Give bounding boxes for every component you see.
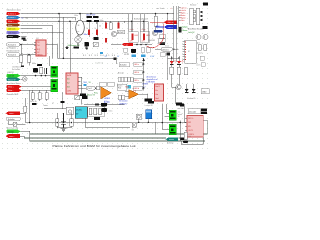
vertical left bus (29, 90, 31, 122)
transistor Q3 (196, 35, 201, 40)
svg-text:Steckdose oben: Steckdose oben (7, 8, 21, 11)
cyan pad small (83, 84, 86, 86)
capacitor C7 (93, 16, 99, 18)
resistor R7 (45, 93, 48, 100)
resistor bank R5 R6 R7 (30, 90, 47, 101)
wire op2 out (125, 91, 148, 98)
svg-text:10k Widerst.: 10k Widerst. (12, 66, 22, 69)
connector flag violet (7, 31, 21, 34)
capacitor C8 (87, 20, 92, 22)
junction circle (21, 54, 23, 56)
svg-text:LM386 N: LM386 N (119, 104, 127, 106)
svg-text:10k: 10k (188, 136, 191, 138)
connector flag green 2 (7, 130, 21, 134)
stubs to labels (179, 8, 181, 21)
relay K1 green (51, 66, 58, 77)
box small2 (201, 63, 205, 67)
blob masse (80, 93, 86, 96)
capacitor C4 (74, 46, 80, 48)
wire green2 (21, 131, 30, 141)
svg-text:Anschluss Motor: Anschluss Motor (7, 82, 21, 85)
svg-text:IN2: IN2 (188, 122, 191, 124)
navy mini flag (154, 30, 163, 33)
bus y104 (84, 104, 125, 106)
wire motor- (22, 89, 51, 91)
svg-text:Elko: Elko (84, 34, 88, 36)
svg-text:Motor +: Motor + (8, 20, 14, 23)
svg-text:Lok hi: Lok hi (196, 65, 201, 67)
svg-text:BC5: BC5 (197, 43, 200, 45)
box R bank2 (88, 107, 105, 117)
svg-text:Masse 5V: Masse 5V (8, 79, 16, 81)
resistor R12 (99, 108, 102, 114)
red pin labels (181, 6, 187, 21)
red bar col a (88, 30, 90, 36)
cyan pads row2 (131, 55, 136, 58)
bus bottom 1 (30, 120, 207, 134)
svg-text:Beleuchtung vorn: Beleuchtung vorn (134, 18, 148, 21)
node dot (58, 21, 59, 22)
diode D6 (192, 84, 196, 93)
wires right of relays (180, 104, 184, 141)
svg-text:blau: blau (156, 25, 159, 27)
node dot ov4 (95, 88, 96, 89)
capacitor C6 (87, 16, 93, 18)
vertical x59 (58, 14, 60, 59)
connector flag red 2 (7, 20, 21, 23)
meter box (66, 107, 74, 114)
svg-text:LGB MZS: LGB MZS (147, 82, 156, 84)
strip line (115, 58, 117, 64)
svg-text:Poti 1: Poti 1 (88, 87, 93, 90)
left boxes of stack (119, 63, 130, 67)
svg-text:Masse 5V: Masse 5V (87, 95, 96, 97)
lamp LP2 (75, 35, 82, 46)
connector flag red motor- (7, 89, 22, 93)
connector marks (200, 11, 202, 21)
connector flag red motor+ (7, 85, 22, 89)
wires module (139, 119, 156, 134)
svg-text:1N40: 1N40 (202, 92, 206, 94)
svg-text:1k: 1k (95, 28, 97, 30)
svg-text:Licht hinten: Licht hinten (8, 31, 17, 34)
resistor R14 (177, 67, 181, 74)
opamp U4 (101, 87, 112, 99)
capacitor C10 (32, 103, 37, 105)
capacitor C11 (61, 113, 66, 128)
component boxes top col4 (129, 32, 150, 43)
node dot (79, 13, 81, 15)
node dot (63, 58, 65, 60)
blue annotation block (147, 76, 158, 84)
connector flag blue right (164, 25, 177, 29)
svg-text:angelehnt an: angelehnt an (147, 78, 158, 81)
blob (183, 141, 188, 143)
svg-text:Lspr: Lspr (125, 43, 129, 46)
svg-text:Kontakt 1: Kontakt 1 (8, 44, 16, 47)
small boxes left of op2 (118, 95, 125, 100)
svg-text:Anschlüsse: Anschlüsse (147, 76, 157, 79)
blob under ov3 (167, 53, 171, 56)
wire to strip (58, 45, 116, 59)
vertical x70 (69, 21, 71, 73)
capacitor C9 (94, 20, 99, 22)
blob (176, 102, 182, 105)
ic U8 bottom right (185, 116, 207, 138)
svg-text:Kontakt: Kontakt (8, 130, 14, 133)
svg-text:Stufen: Stufen (117, 85, 122, 88)
resistor R9 (70, 113, 73, 128)
resistor (204, 45, 207, 51)
bus bottom 2 (24, 137, 187, 139)
svg-text:Weiche: Weiche (163, 49, 169, 51)
svg-text:Poti: Poti (94, 92, 98, 95)
ic U3 driver (66, 73, 78, 94)
resistor vert (154, 16, 157, 26)
small box under ov3 (160, 53, 165, 57)
svg-text:Gleis re: Gleis re (168, 21, 174, 24)
svg-text:Masse: Masse (8, 36, 13, 38)
wires below leds (172, 74, 179, 104)
svg-text:Decoder: Decoder (189, 110, 197, 113)
capacitor C1 (37, 64, 42, 66)
transistor box module (136, 114, 142, 119)
LED D1 arrows (174, 60, 176, 62)
svg-text:Anschl.: Anschl. (118, 72, 124, 75)
dots (136, 44, 147, 46)
cable end symbol (22, 37, 27, 41)
dot (155, 13, 157, 15)
resistor R4 (24, 98, 27, 123)
black blob right of teal (180, 137, 187, 140)
svg-text:Gnd: Gnd (155, 98, 158, 100)
wire 4 (21, 25, 53, 58)
stack of led boxes (134, 62, 143, 90)
wire top bus 1 (21, 13, 174, 15)
elko C5 (84, 42, 89, 49)
node dots module (138, 122, 149, 123)
blob under bus (102, 108, 108, 112)
bottom loop (181, 137, 203, 144)
node dot (115, 58, 116, 59)
box right (201, 89, 209, 94)
capacitor elko C2 (33, 68, 38, 73)
svg-text:100n: 100n (100, 20, 104, 22)
wire ov3 (155, 48, 179, 50)
box above op1 (100, 82, 115, 86)
connector flag red 1 (7, 12, 21, 15)
LED D2 (177, 56, 181, 67)
transistor Q1 (111, 31, 116, 36)
ground G2 (61, 129, 67, 132)
svg-text:um-: um- (178, 111, 181, 113)
svg-text:Lautspr 8R: Lautspr 8R (145, 104, 154, 107)
connector flag teal (7, 78, 21, 82)
crystal box X1 (132, 123, 136, 128)
ic U2 box (0, 0, 1, 1)
connector flag teal bottom (166, 137, 179, 141)
wire 7 (21, 36, 27, 38)
red bars in boxes (132, 34, 134, 41)
svg-text:LED c: LED c (134, 80, 139, 82)
resistor red RV2 (118, 23, 120, 29)
connector flag red bottom (6, 134, 20, 138)
svg-text:Snd 1: Snd 1 (155, 86, 159, 88)
svg-text:Taster: Taster (43, 104, 48, 107)
resistor R10 (89, 108, 92, 114)
arrow up (142, 58, 145, 61)
wire ov4 (78, 87, 96, 89)
LED D1 (170, 56, 174, 67)
svg-text:1k: 1k (99, 26, 101, 28)
svg-text:NE555: NE555 (37, 55, 43, 57)
svg-text:Gleis: Gleis (181, 20, 185, 22)
svg-text:Kontakt 2: Kontakt 2 (8, 54, 16, 57)
node dot (90, 13, 92, 15)
svg-text:an Radsatz: an Radsatz (7, 47, 17, 50)
svg-text:Masse: Masse (169, 139, 174, 141)
vertical from strip (168, 56, 180, 80)
label box L1 (7, 117, 20, 121)
junction dots various (29, 21, 181, 124)
svg-text:Licht 5V: Licht 5V (188, 31, 195, 34)
box small (200, 56, 204, 60)
terminal T1 (7, 43, 21, 47)
wire u3 down (81, 77, 83, 105)
svg-text:Schalter: Schalter (120, 64, 127, 67)
svg-text:Gleis li: Gleis li (168, 27, 174, 29)
red wire to flag (150, 21, 164, 23)
svg-text:an Dach: an Dach (196, 53, 202, 55)
svg-text:Motor -: Motor - (8, 24, 14, 27)
transistor Q2 (152, 30, 157, 35)
blob under U7 (148, 101, 154, 103)
relay K4 (169, 124, 176, 135)
capacitor C12 (61, 101, 65, 103)
svg-text:an Gleis: an Gleis (178, 108, 185, 110)
ic U1 pins (34, 42, 58, 52)
box cyan module (75, 107, 87, 119)
svg-text:L298 N: L298 N (188, 134, 194, 136)
relay K2 green (51, 79, 58, 92)
blob small (21, 65, 24, 67)
svg-text:Reedkontakt Nr: Reedkontakt Nr (7, 49, 21, 52)
wire from IC1 bottom (49, 56, 51, 66)
label box right (188, 109, 201, 114)
red flag mid (122, 43, 133, 46)
blob (180, 104, 184, 107)
wire join (57, 118, 130, 128)
connector flag green (7, 74, 21, 78)
transistor Q4 (203, 35, 208, 40)
cyan pad (128, 85, 132, 89)
wire gleis (20, 112, 25, 114)
svg-text:4R 8R: 4R 8R (124, 54, 130, 56)
svg-text:Servo: Servo (165, 45, 169, 47)
node dot (167, 13, 168, 14)
black blob (82, 96, 88, 100)
wire L1 loop (8, 121, 25, 125)
bus dots (143, 63, 145, 89)
box mid (117, 84, 127, 90)
svg-text:Freilauf D.: Freilauf D. (188, 98, 197, 100)
blob (160, 43, 165, 46)
wire T2 (20, 54, 36, 56)
svg-text:DC/DC: DC/DC (76, 110, 83, 112)
connector drawing right rail (196, 8, 200, 24)
motor M1 cylinder (76, 14, 85, 35)
svg-text:Licht 5V: Licht 5V (8, 75, 15, 78)
svg-text:4x2N: 4x2N (67, 75, 72, 77)
svg-text:Motor -: Motor - (8, 89, 14, 92)
wire 5 (21, 28, 43, 30)
node dot A (20, 44, 22, 46)
wire teal (21, 78, 23, 80)
wire green row (21, 75, 51, 77)
wire red bottom (20, 136, 24, 138)
svg-text:LGB 5V: LGB 5V (7, 72, 14, 74)
wire c12 (61, 92, 63, 109)
svg-text:Vcc: Vcc (155, 90, 158, 92)
blob2 (94, 117, 100, 120)
resistor R16 (184, 132, 187, 140)
wire bundle verticals (174, 6, 179, 62)
capacitor C3 (45, 68, 47, 74)
transistor box T (75, 95, 80, 100)
box right of ov4 (96, 86, 100, 90)
svg-text:In2: In2 (67, 83, 70, 85)
svg-text:In3: In3 (67, 87, 70, 89)
bus middle long (25, 122, 186, 124)
wire T1 (20, 44, 36, 46)
svg-text:an Kontakt: an Kontakt (12, 68, 21, 71)
blob on bus (101, 103, 107, 106)
connector flag blue (7, 16, 21, 19)
svg-text:100u: 100u (109, 110, 113, 112)
opamp U5 (129, 90, 139, 100)
vertical x63 (62, 17, 64, 58)
connector flag black (7, 35, 21, 38)
blob col b (94, 37, 99, 40)
strip end blob (114, 57, 117, 60)
verticals col4 from bus3 (132, 14, 156, 32)
svg-text:Schalter: Schalter (8, 118, 15, 121)
svg-text:OUT1: OUT1 (188, 130, 193, 132)
svg-text:Motor +: Motor + (8, 86, 14, 89)
resistor R8 (56, 113, 59, 128)
svg-text:Stecker: Stecker (190, 4, 197, 7)
resistor R6 (38, 93, 41, 100)
connector flag red right (164, 20, 177, 24)
wire motor+ (22, 86, 51, 88)
wires to red bars (89, 21, 97, 37)
small box row (118, 77, 133, 82)
svg-text:Gleis 2: Gleis 2 (9, 136, 14, 138)
resistor (198, 45, 201, 51)
svg-text:LM386: LM386 (142, 84, 148, 86)
svg-text:zum Tender: zum Tender (156, 7, 165, 10)
svg-text:1N4148: 1N4148 (149, 40, 155, 42)
module blue (Hupe) (146, 110, 152, 119)
terminal OV3 (161, 47, 173, 51)
wire mid flag (111, 44, 152, 46)
connector pins (193, 11, 195, 22)
black bars (201, 108, 207, 110)
wire mid row (44, 108, 66, 110)
svg-text:Schiene li: Schiene li (8, 17, 16, 19)
label box q1 (117, 30, 125, 34)
svg-text:Anschluss Decoder: Anschluss Decoder (188, 27, 204, 30)
svg-text:1k: 1k (86, 28, 88, 30)
svg-text:LM358: LM358 (104, 98, 110, 100)
node dot (69, 21, 71, 23)
connector flag brown (7, 23, 21, 26)
red bar col b (96, 30, 98, 36)
cable pair verticals (129, 14, 144, 32)
ic U6 big (182, 40, 196, 63)
svg-text:S1 S2 S3 S4 S5 S6: S1 S2 S3 S4 S5 S6 (83, 55, 115, 57)
lamp LP1 (22, 77, 27, 82)
resistor R13 (170, 67, 174, 74)
svg-text:Getriebe NEU: Getriebe NEU (7, 93, 19, 96)
dash marks left (95, 104, 99, 106)
svg-text:LED h: LED h (134, 72, 139, 74)
resistor R15 (184, 68, 188, 75)
svg-text:Schiene re: Schiene re (8, 12, 16, 15)
vertical to blob (147, 21, 149, 42)
LED D2 arrows (182, 60, 184, 62)
terminal OV4 (86, 86, 95, 90)
svg-text:7805: 7805 (83, 82, 87, 84)
connector flag yellow (7, 27, 21, 30)
switch box S1 (13, 122, 17, 126)
svg-text:Gleis 1: Gleis 1 (9, 113, 14, 115)
wire top bus 2 (21, 17, 76, 20)
ic U7 sound (155, 84, 164, 101)
svg-text:0,5W: 0,5W (150, 56, 154, 58)
svg-text:Verstärker: Verstärker (119, 100, 128, 103)
svg-text:Schiene: Schiene (167, 143, 174, 145)
node dots red bars (88, 21, 97, 22)
vertical to red flag (167, 14, 169, 21)
relay K3 (169, 110, 176, 120)
svg-text:LED v: LED v (134, 64, 139, 66)
resistor R1 (19, 45, 22, 66)
resistor R11 (94, 108, 97, 114)
connector drawing left rail (190, 8, 194, 24)
svg-text:1 2 3 4 5 6: 1 2 3 4 5 6 (95, 63, 103, 65)
ic U1 timer (36, 40, 46, 57)
vertical bus col4 (143, 59, 145, 91)
wire top bus 3 (21, 20, 149, 22)
resistor R5 (31, 93, 34, 100)
red x (133, 89, 136, 92)
dark component (179, 27, 182, 33)
tiny boxes (158, 34, 165, 42)
svg-text:IN1 V+: IN1 V+ (188, 118, 193, 120)
resistor R3 (40, 67, 43, 74)
blob speaker (145, 98, 153, 101)
blob (203, 26, 208, 29)
bus bottom 3 (30, 140, 205, 142)
svg-text:Elko: Elko (75, 15, 78, 17)
sub components row (124, 48, 150, 53)
red bar mid (105, 38, 107, 43)
terminal T2 (7, 53, 21, 57)
wire 6 (21, 32, 64, 34)
svg-text:ws: ws (77, 31, 79, 33)
blue pad strip (100, 52, 103, 54)
